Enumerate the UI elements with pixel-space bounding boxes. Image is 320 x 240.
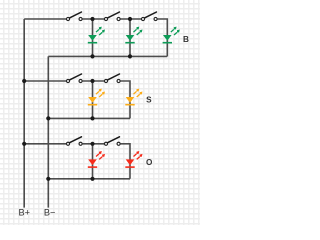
junction bbox=[90, 79, 94, 83]
wire O top rail bbox=[24, 143, 66, 145]
label S bbox=[146, 96, 152, 105]
svg-text:O: O bbox=[146, 158, 153, 167]
junction bbox=[90, 177, 94, 181]
junction bbox=[22, 142, 26, 146]
junction bbox=[46, 116, 50, 120]
LED D4 (yellow) bbox=[88, 89, 105, 106]
svg-text:B: B bbox=[183, 35, 189, 44]
LED D1 (green) bbox=[88, 27, 105, 44]
LED D2 (green) bbox=[125, 27, 142, 44]
wire branch bbox=[92, 81, 94, 118]
wire B- return line bbox=[47, 56, 49, 207]
junction bbox=[22, 79, 26, 83]
svg-text:S: S bbox=[146, 96, 152, 105]
label B bbox=[183, 35, 189, 44]
wire bbox=[121, 81, 130, 118]
wire B top rail bbox=[24, 18, 66, 20]
svg-text:B−: B− bbox=[44, 208, 56, 218]
junction bbox=[90, 17, 94, 21]
net label B- bbox=[44, 208, 56, 218]
LED D6 (red) bbox=[88, 151, 105, 168]
switch SW3 bbox=[141, 12, 157, 21]
wire branch bbox=[92, 144, 94, 179]
svg-text:B+: B+ bbox=[19, 208, 31, 218]
wire branch bbox=[129, 19, 131, 56]
junction bbox=[90, 116, 94, 120]
switch SW1 bbox=[66, 12, 82, 21]
label O bbox=[146, 158, 153, 167]
wire S top rail bbox=[24, 80, 66, 82]
wire S bottom rail bbox=[48, 117, 130, 119]
switch SW2 bbox=[104, 12, 120, 21]
switch SW4 bbox=[66, 74, 82, 83]
junction bbox=[46, 177, 50, 181]
switch SW5 bbox=[104, 74, 120, 83]
wire branch bbox=[92, 19, 94, 56]
net label B+ bbox=[19, 208, 31, 218]
LED D5 (yellow) bbox=[125, 89, 142, 106]
wire bbox=[83, 18, 104, 20]
wire bbox=[83, 143, 104, 145]
junction bbox=[90, 142, 94, 146]
switch SW7 bbox=[104, 137, 120, 146]
LED D7 (red) bbox=[125, 151, 142, 168]
switch SW6 bbox=[66, 137, 82, 146]
wire bbox=[83, 80, 104, 82]
LED D3 (green) bbox=[163, 27, 180, 44]
wire B bottom rail bbox=[48, 55, 167, 57]
junction bbox=[128, 17, 132, 21]
wire B+ supply line bbox=[23, 19, 25, 208]
wire bbox=[121, 18, 141, 20]
junction bbox=[90, 54, 94, 58]
wire bbox=[121, 144, 130, 179]
wire O bottom rail bbox=[48, 178, 130, 180]
junction bbox=[128, 54, 132, 58]
wire bbox=[158, 19, 168, 56]
